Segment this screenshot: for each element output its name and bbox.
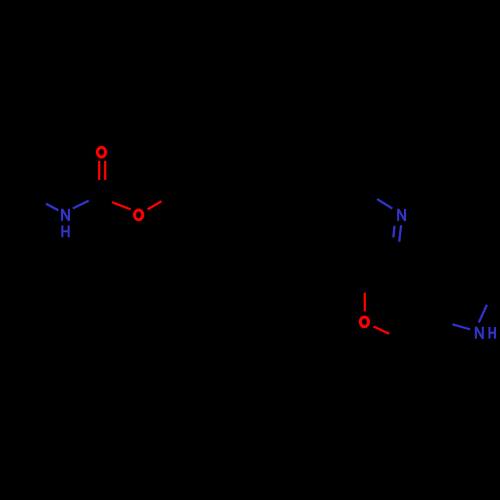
bond CH3-N (blue half near N) [46, 204, 58, 211]
atom O ester (letter O drawn as ellipse) [135, 210, 143, 220]
atom N pyrrolidine NH (letter N drawn as strokes) [476, 327, 483, 339]
bond N=C pyridine double main line (blue half near N) [399, 225, 401, 241]
atom H of carbamate NH (letter H drawn as strokes) [62, 225, 68, 237]
bond O-CH2 (red half near O) [148, 201, 162, 209]
bond C-O pyran vertical (red half near O) [364, 293, 366, 312]
atom O carbonyl (letter O drawn as ellipse) [97, 147, 105, 157]
bond C-NH left (blue half near N) [452, 324, 470, 329]
bond C(=O)-O ester (red half near O) [112, 202, 131, 209]
bond C=O double bond line 1 (red half) [98, 161, 100, 180]
bond CH=N pyridine upper-left single (blue half near N) [377, 199, 392, 209]
atom O pyran (letter O drawn as ellipse) [360, 317, 368, 327]
bond N-C(=O) (blue half near N) [73, 201, 89, 209]
atom N pyridine (letter N drawn as strokes) [398, 209, 405, 221]
bond NH-C up-right (blue half near N) [479, 305, 487, 323]
bond C=O double bond line 2 (red half) [104, 161, 106, 180]
atom H of pyrrolidine NH (letter H drawn as strokes) [489, 327, 495, 339]
atom N carbamate (letter N drawn as strokes) [62, 209, 69, 221]
bond O-CH2 pyran down-right (red half near O) [374, 327, 390, 334]
bond N=C pyridine double inner line (blue half near N) [393, 226, 394, 238]
